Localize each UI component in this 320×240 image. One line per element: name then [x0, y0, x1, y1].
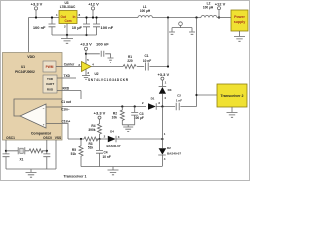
capacitor 100 nF (regulator output)	[33, 16, 56, 35]
svg-text:X1: X1	[20, 157, 24, 161]
resistor R1 220	[123, 55, 136, 69]
svg-text:C1: C1	[144, 54, 148, 58]
ground (transceiver 2)	[227, 113, 238, 118]
svg-text:C2: C2	[177, 94, 181, 98]
svg-text:100 µH: 100 µH	[140, 9, 151, 13]
svg-text:PWM: PWM	[46, 65, 54, 69]
microcontroller U1 PIC24	[3, 53, 63, 141]
supply +12V (left)	[88, 2, 99, 19]
wire OSC0	[46, 140, 48, 154]
op-amp comparator (inside U1)	[14, 99, 62, 136]
wire injection vertical	[167, 18, 169, 67]
svg-text:+12 V: +12 V	[88, 2, 99, 7]
svg-text:100 nF: 100 nF	[101, 25, 114, 30]
wire R3 to D4	[96, 138, 108, 140]
svg-text:C1 out: C1 out	[61, 100, 72, 104]
svg-text:D3: D3	[168, 88, 172, 92]
svg-text:10 nF: 10 nF	[103, 155, 111, 159]
UART block	[43, 75, 62, 93]
svg-text:D2: D2	[167, 146, 171, 150]
svg-text:Com: Com	[64, 19, 71, 23]
wire L1 to L2	[152, 17, 201, 19]
wire ground rail under regulator	[52, 34, 97, 36]
diode D2	[158, 107, 181, 167]
svg-text:10 µF: 10 µF	[72, 25, 83, 30]
resistor (crystal parallel)	[29, 149, 47, 153]
svg-text:220: 220	[127, 59, 133, 63]
svg-text:TXD: TXD	[64, 74, 71, 78]
svg-text:51k: 51k	[88, 145, 94, 149]
resistor R2 10k	[112, 105, 125, 124]
wire carrier	[62, 63, 82, 67]
supply +12V (right)	[215, 1, 226, 18]
svg-text:Power: Power	[234, 15, 245, 19]
crystal X1	[6, 147, 29, 161]
svg-text:SN74LVC1G34DCKR: SN74LVC1G34DCKR	[88, 78, 129, 82]
diode D4	[104, 129, 164, 147]
supply +3.3V (R4)	[94, 110, 106, 119]
wire R1 to C1	[137, 66, 144, 68]
svg-text:L78L33AC: L78L33AC	[60, 5, 76, 9]
svg-text:Comparator: Comparator	[31, 132, 52, 136]
svg-text:1 nF: 1 nF	[176, 98, 182, 102]
ground (buffer)	[82, 69, 90, 79]
capacitor 100 nF (buffer decoupling)	[86, 42, 114, 63]
wire +12V bus to L1	[77, 17, 138, 19]
svg-text:−: −	[43, 106, 45, 110]
ground (R2 C3)	[122, 125, 134, 132]
svg-text:+12 V: +12 V	[215, 1, 226, 6]
svg-text:Transceiver 1: Transceiver 1	[64, 174, 87, 178]
svg-text:BAS40-07: BAS40-07	[106, 144, 120, 148]
svg-text:VSS: VSS	[55, 136, 61, 140]
label RXD pin	[62, 86, 81, 99]
capacitor C1 10 nF	[143, 54, 169, 71]
wire C1in- net	[62, 106, 146, 108]
svg-text:RXD: RXD	[63, 86, 70, 90]
svg-text:BAS40-07: BAS40-07	[167, 151, 181, 155]
svg-text:100 µF: 100 µF	[134, 116, 144, 120]
svg-text:390k: 390k	[88, 128, 95, 132]
svg-text:51k: 51k	[71, 152, 77, 156]
svg-text:+3.3 V: +3.3 V	[157, 72, 169, 77]
svg-text:10k: 10k	[112, 115, 118, 119]
transceiver 2 box	[217, 84, 247, 112]
capacitor C4 10 nF	[96, 139, 111, 167]
resistor R3 51k	[84, 137, 98, 149]
capacitor (OSC1)	[3, 154, 10, 169]
capacitor C2 1 nF	[176, 94, 197, 111]
capacitor 100 nF (regulator input)	[93, 16, 114, 35]
svg-text:VDD: VDD	[27, 55, 35, 59]
svg-text:+3.3 V: +3.3 V	[80, 42, 92, 47]
buffer U2 SN74LVC1G34	[82, 58, 129, 82]
diode D1	[142, 97, 175, 110]
svg-text:U2: U2	[95, 72, 99, 76]
wire bottom ground rail	[81, 166, 162, 168]
svg-text:UART: UART	[46, 82, 54, 86]
capacitor 10 uF	[72, 16, 90, 36]
capacitor (OSC0)	[43, 154, 50, 169]
ground (power supply)	[234, 37, 245, 42]
svg-text:+3.3 V: +3.3 V	[31, 2, 43, 7]
label TXD pin	[62, 74, 76, 78]
svg-text:C1in−: C1in−	[61, 108, 70, 112]
ground (bottom rail)	[108, 167, 119, 175]
svg-text:100 nF: 100 nF	[33, 25, 46, 30]
svg-text:OSC1: OSC1	[6, 136, 15, 140]
svg-text:100 nF: 100 nF	[96, 42, 109, 47]
wire to transceiver 2	[195, 94, 197, 96]
svg-text:D1: D1	[151, 97, 155, 101]
node pickup tap	[195, 16, 197, 18]
ground (regulator rail)	[61, 35, 73, 43]
supply +3.3V (buffer)	[80, 42, 92, 64]
resistor R5 51k	[71, 139, 83, 167]
capacitor C3 100 µF	[131, 105, 144, 124]
svg-text:+3.3 V: +3.3 V	[94, 110, 106, 115]
supply +3.3V (clamp D3)	[157, 72, 169, 86]
svg-text:U1: U1	[21, 65, 25, 69]
svg-text:10 nF: 10 nF	[143, 59, 151, 63]
wire top +3.3V bus segment	[29, 18, 60, 53]
ground (crystal)	[26, 169, 37, 177]
wire C1in+ net	[68, 138, 84, 140]
wire crystal ground rail	[6, 140, 56, 169]
svg-text:PIC24FJ0002: PIC24FJ0002	[15, 70, 35, 74]
node carrier injection (L1-L2 tap)	[167, 16, 169, 18]
svg-text:C4: C4	[104, 151, 108, 155]
svg-text:In: In	[73, 15, 76, 19]
wire OSC1	[5, 140, 7, 154]
svg-text:Carrier: Carrier	[64, 63, 75, 67]
probe point symbol (between L1 and L2)	[169, 22, 195, 34]
wire C1in+ routing	[62, 124, 68, 140]
regulator U3 L78L33AC	[56, 1, 81, 35]
inductor L2 100 µH	[201, 1, 217, 17]
wire L2 to power supply	[217, 17, 231, 19]
svg-text:+: +	[43, 122, 45, 126]
inductor L1 100 µH	[138, 5, 152, 18]
svg-text:Transceiver 2: Transceiver 2	[221, 94, 244, 98]
svg-text:RXD: RXD	[47, 88, 54, 92]
svg-text:OSC0: OSC0	[43, 136, 52, 140]
svg-text:TXD: TXD	[47, 77, 54, 81]
power supply box	[231, 10, 248, 36]
wire pickup vertical	[196, 18, 198, 107]
PWM block	[43, 61, 62, 72]
svg-text:100 µH: 100 µH	[203, 6, 214, 10]
resistor R4 390k	[88, 119, 101, 140]
svg-text:C1in+: C1in+	[62, 119, 71, 123]
svg-text:D4: D4	[110, 129, 114, 133]
wire buffer output	[91, 66, 123, 68]
diode D3 clamp up	[159, 87, 172, 107]
supply +3.3V (top left)	[31, 2, 43, 19]
svg-text:supply: supply	[234, 20, 246, 24]
